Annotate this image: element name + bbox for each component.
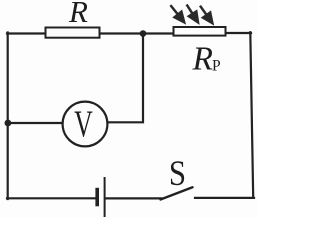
voltmeter V1 circle bbox=[63, 102, 108, 147]
svg-text:V: V bbox=[74, 104, 93, 146]
battery BT1 positive plate (long thin) bbox=[104, 177, 106, 217]
wire right vertical bbox=[250, 32, 253, 197]
wire node A down to voltmeter branch bbox=[108, 35, 143, 122]
photoresistor RP light arrow 1 bbox=[170, 5, 184, 22]
wire left vertical bbox=[7, 33, 9, 200]
photoresistor RP light arrow 3 bbox=[200, 6, 212, 24]
wire resistor R to node A bbox=[100, 32, 174, 34]
svg-text:R: R bbox=[192, 41, 213, 78]
svg-text:P: P bbox=[212, 58, 221, 75]
svg-text:R: R bbox=[68, 0, 88, 29]
svg-text:S: S bbox=[169, 154, 186, 193]
wire battery to switch bbox=[106, 197, 162, 199]
node A junction dot bbox=[140, 30, 147, 37]
photoresistor RP body bbox=[174, 27, 226, 36]
wire photoresistor to top-right corner bbox=[226, 32, 252, 34]
resistor R1 body bbox=[46, 28, 100, 38]
battery BT1 negative plate (short thick) bbox=[95, 188, 99, 207]
wire top-left horizontal bbox=[7, 32, 46, 34]
switch S1 lever bbox=[161, 187, 193, 199]
node B junction dot (left) bbox=[5, 120, 12, 127]
wire bottom-left to battery bbox=[7, 197, 95, 199]
photoresistor RP light arrow 2 bbox=[187, 5, 198, 23]
wire switch right contact to bottom-right corner bbox=[195, 197, 254, 199]
wire left node to voltmeter bbox=[8, 122, 63, 124]
